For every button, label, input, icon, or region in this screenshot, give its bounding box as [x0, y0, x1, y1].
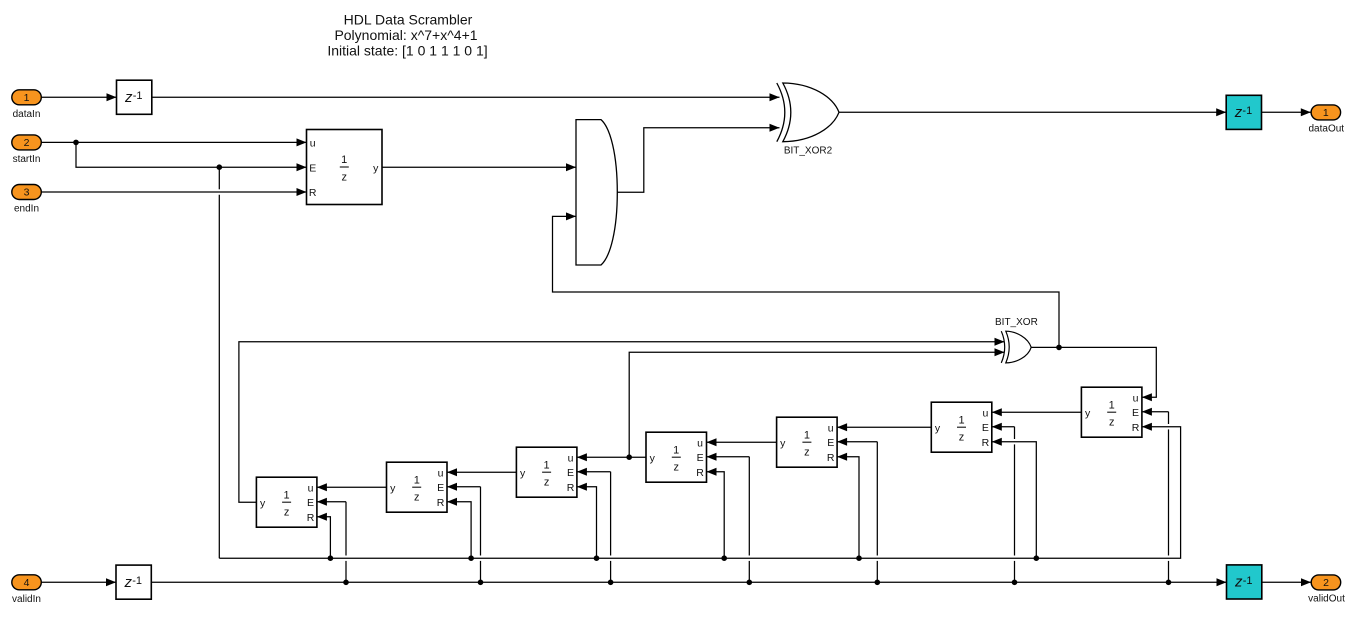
svg-text:1: 1 — [1109, 399, 1115, 411]
wire reset to register C R — [577, 483, 597, 559]
wire validIn to delay4 — [41, 578, 116, 586]
wire dataIn to delay1 — [41, 93, 116, 101]
node enable line junction G — [1166, 580, 1172, 586]
svg-text:z: z — [1109, 417, 1115, 429]
svg-text:-1: -1 — [133, 90, 143, 102]
svg-text:E: E — [1132, 407, 1139, 419]
wire BIT_XOR output to first register u — [1031, 347, 1156, 401]
wire register A y feedback to BIT_XOR input1 — [239, 338, 1005, 502]
wire enable to register A E — [317, 498, 346, 583]
wire x4 tap to BIT_XOR input2 — [629, 348, 1004, 457]
svg-text:E: E — [827, 437, 834, 449]
svg-text:R: R — [437, 497, 445, 509]
wire register G y to register F u — [992, 408, 1082, 416]
wire register D y to register C u — [577, 453, 646, 461]
AND gate shape block — [576, 120, 617, 265]
svg-text:1: 1 — [544, 459, 550, 471]
svg-text:1: 1 — [673, 444, 679, 456]
svg-text:y: y — [520, 467, 526, 479]
svg-text:R: R — [307, 512, 315, 524]
outport 2 validOut — [1308, 575, 1345, 605]
node enable line junction C — [608, 580, 614, 586]
register delay block 1/z (G) — [1081, 387, 1142, 437]
register delay block 1/z (E) — [777, 417, 838, 467]
svg-text:R: R — [1132, 422, 1140, 434]
wire startIn to u of enabled delay — [41, 138, 306, 146]
wire reset to register D R — [707, 468, 725, 559]
svg-text:E: E — [567, 467, 574, 479]
svg-text:z: z — [804, 447, 810, 459]
svg-text:-1: -1 — [1242, 105, 1252, 117]
svg-text:u: u — [828, 422, 834, 434]
unit delay block z-1 (dataOut, cyan) — [1226, 95, 1261, 129]
svg-text:R: R — [309, 187, 317, 199]
wire register F y to register E u — [837, 423, 931, 431]
svg-text:z: z — [414, 492, 420, 504]
svg-text:z: z — [959, 432, 965, 444]
svg-text:E: E — [437, 482, 444, 494]
wire enable line to output delay — [151, 578, 1226, 586]
svg-text:E: E — [697, 452, 704, 464]
svg-text:z: z — [544, 477, 550, 489]
node enable line junction E — [875, 580, 881, 586]
wire reset line — [219, 167, 1180, 558]
svg-text:1: 1 — [1323, 107, 1329, 119]
wire reset to register F R — [992, 438, 1037, 559]
register delay block 1/z (B) — [387, 462, 448, 512]
svg-text:z: z — [123, 574, 132, 591]
svg-text:z: z — [341, 171, 347, 183]
svg-text:validIn: validIn — [12, 594, 41, 605]
inport 3 endIn — [12, 185, 42, 215]
svg-text:y: y — [1085, 407, 1091, 419]
wire reset to register B R — [447, 498, 471, 559]
node reset line junction F — [1034, 555, 1040, 561]
wire enable to register G E — [1142, 408, 1169, 583]
svg-text:R: R — [567, 482, 575, 494]
svg-text:R: R — [982, 437, 990, 449]
wire enabled delay y to AND input1 — [382, 163, 576, 171]
svg-text:R: R — [696, 467, 704, 479]
svg-text:1: 1 — [414, 474, 420, 486]
svg-text:1: 1 — [284, 489, 290, 501]
wire register B y to register A u — [317, 483, 387, 491]
svg-text:z: z — [1234, 104, 1243, 121]
node reset line junction C — [594, 555, 600, 561]
svg-text:y: y — [260, 497, 266, 509]
register delay block 1/z (A) — [256, 477, 317, 527]
svg-text:E: E — [309, 162, 316, 174]
node BIT_XOR output junction — [1056, 345, 1062, 351]
node reset line junction D — [721, 555, 727, 561]
svg-text:y: y — [390, 482, 396, 494]
svg-text:y: y — [373, 162, 379, 174]
wire output delay to dataOut port — [1262, 108, 1311, 116]
svg-text:E: E — [307, 497, 314, 509]
svg-text:y: y — [780, 437, 786, 449]
register delay block 1/z (D) — [646, 432, 707, 482]
svg-text:startIn: startIn — [13, 154, 41, 165]
node reset line junction B — [468, 555, 474, 561]
svg-text:z: z — [124, 89, 133, 106]
node enable line junction F — [1012, 580, 1018, 586]
svg-text:BIT_XOR: BIT_XOR — [995, 317, 1038, 328]
svg-text:u: u — [308, 482, 314, 494]
inport 4 validIn — [12, 575, 42, 605]
node reset line junction A — [328, 555, 334, 561]
svg-text:z: z — [1234, 574, 1243, 591]
svg-text:u: u — [982, 407, 988, 419]
svg-text:validOut: validOut — [1308, 594, 1345, 605]
svg-text:-1: -1 — [1243, 575, 1253, 587]
svg-text:u: u — [310, 137, 316, 149]
xor gate BIT_XOR — [995, 317, 1038, 363]
wire feedback to AND input2 — [553, 212, 1060, 347]
wire enable to register B E — [447, 483, 481, 583]
svg-text:dataOut: dataOut — [1309, 124, 1345, 135]
wire AND output to BIT_XOR2 input2 — [617, 124, 779, 193]
svg-text:endIn: endIn — [14, 204, 39, 215]
outport 1 dataOut — [1309, 105, 1345, 135]
wire output delay to validOut port — [1262, 578, 1311, 586]
inport 2 startIn — [12, 135, 42, 165]
node E branch to reset line — [217, 164, 223, 170]
svg-text:u: u — [1133, 392, 1139, 404]
svg-text:2: 2 — [24, 137, 30, 149]
svg-text:-1: -1 — [132, 575, 142, 587]
wire reset to register A R — [317, 513, 331, 559]
svg-text:HDL Data Scrambler: HDL Data Scrambler — [344, 12, 473, 28]
wire enable to register D E — [707, 453, 750, 583]
svg-text:R: R — [827, 452, 835, 464]
svg-text:u: u — [438, 467, 444, 479]
svg-text:1: 1 — [804, 429, 810, 441]
svg-text:Initial state: [1 0 1 1 1 0 1]: Initial state: [1 0 1 1 1 0 1] — [327, 43, 487, 59]
wire delay1 to BIT_XOR2 input1 — [152, 93, 780, 101]
svg-text:1: 1 — [24, 92, 30, 104]
wire startIn branch to E of enabled delay — [76, 142, 307, 171]
register delay block 1/z (F) — [931, 402, 992, 452]
inport 1 dataIn — [12, 90, 42, 120]
svg-text:1: 1 — [341, 154, 347, 166]
unit delay block z-1 (validOut, cyan) — [1227, 565, 1262, 599]
svg-text:u: u — [568, 452, 574, 464]
enabled resettable delay block 1/z — [307, 130, 383, 205]
register delay block 1/z (C) — [516, 447, 577, 497]
svg-text:3: 3 — [24, 187, 30, 199]
wire register E y to register D u — [707, 438, 777, 446]
title annotation — [327, 12, 487, 59]
svg-text:BIT_XOR2: BIT_XOR2 — [784, 146, 833, 157]
xor gate BIT_XOR2 — [777, 83, 839, 157]
wire register C y to register B u — [447, 468, 516, 476]
node enable line junction B — [478, 580, 484, 586]
svg-text:dataIn: dataIn — [13, 109, 41, 120]
node x4 tap junction — [626, 454, 632, 460]
svg-text:y: y — [650, 452, 656, 464]
wire enable to register E E — [837, 438, 877, 583]
svg-text:4: 4 — [24, 577, 30, 589]
wire BIT_XOR2 output to output delay — [839, 108, 1226, 116]
svg-text:z: z — [673, 462, 679, 474]
svg-text:y: y — [935, 422, 941, 434]
node enable line junction D — [747, 580, 753, 586]
svg-text:u: u — [697, 437, 703, 449]
node startIn branch — [73, 140, 79, 146]
unit delay block z-1 (dataIn) — [117, 80, 152, 114]
node reset line junction E — [856, 555, 862, 561]
svg-text:E: E — [982, 422, 989, 434]
wire enable to register C E — [577, 468, 611, 583]
svg-text:z: z — [284, 507, 290, 519]
svg-text:1: 1 — [958, 414, 964, 426]
wire enable to register F E — [992, 423, 1015, 583]
unit delay block z-1 (validIn) — [116, 565, 151, 599]
node enable line junction A — [343, 580, 349, 586]
svg-text:2: 2 — [1323, 577, 1329, 589]
wire reset to register E R — [837, 453, 859, 559]
svg-text:Polynomial: x^7+x^4+1: Polynomial: x^7+x^4+1 — [334, 27, 477, 43]
wire endIn to R of enabled delay — [41, 188, 306, 196]
